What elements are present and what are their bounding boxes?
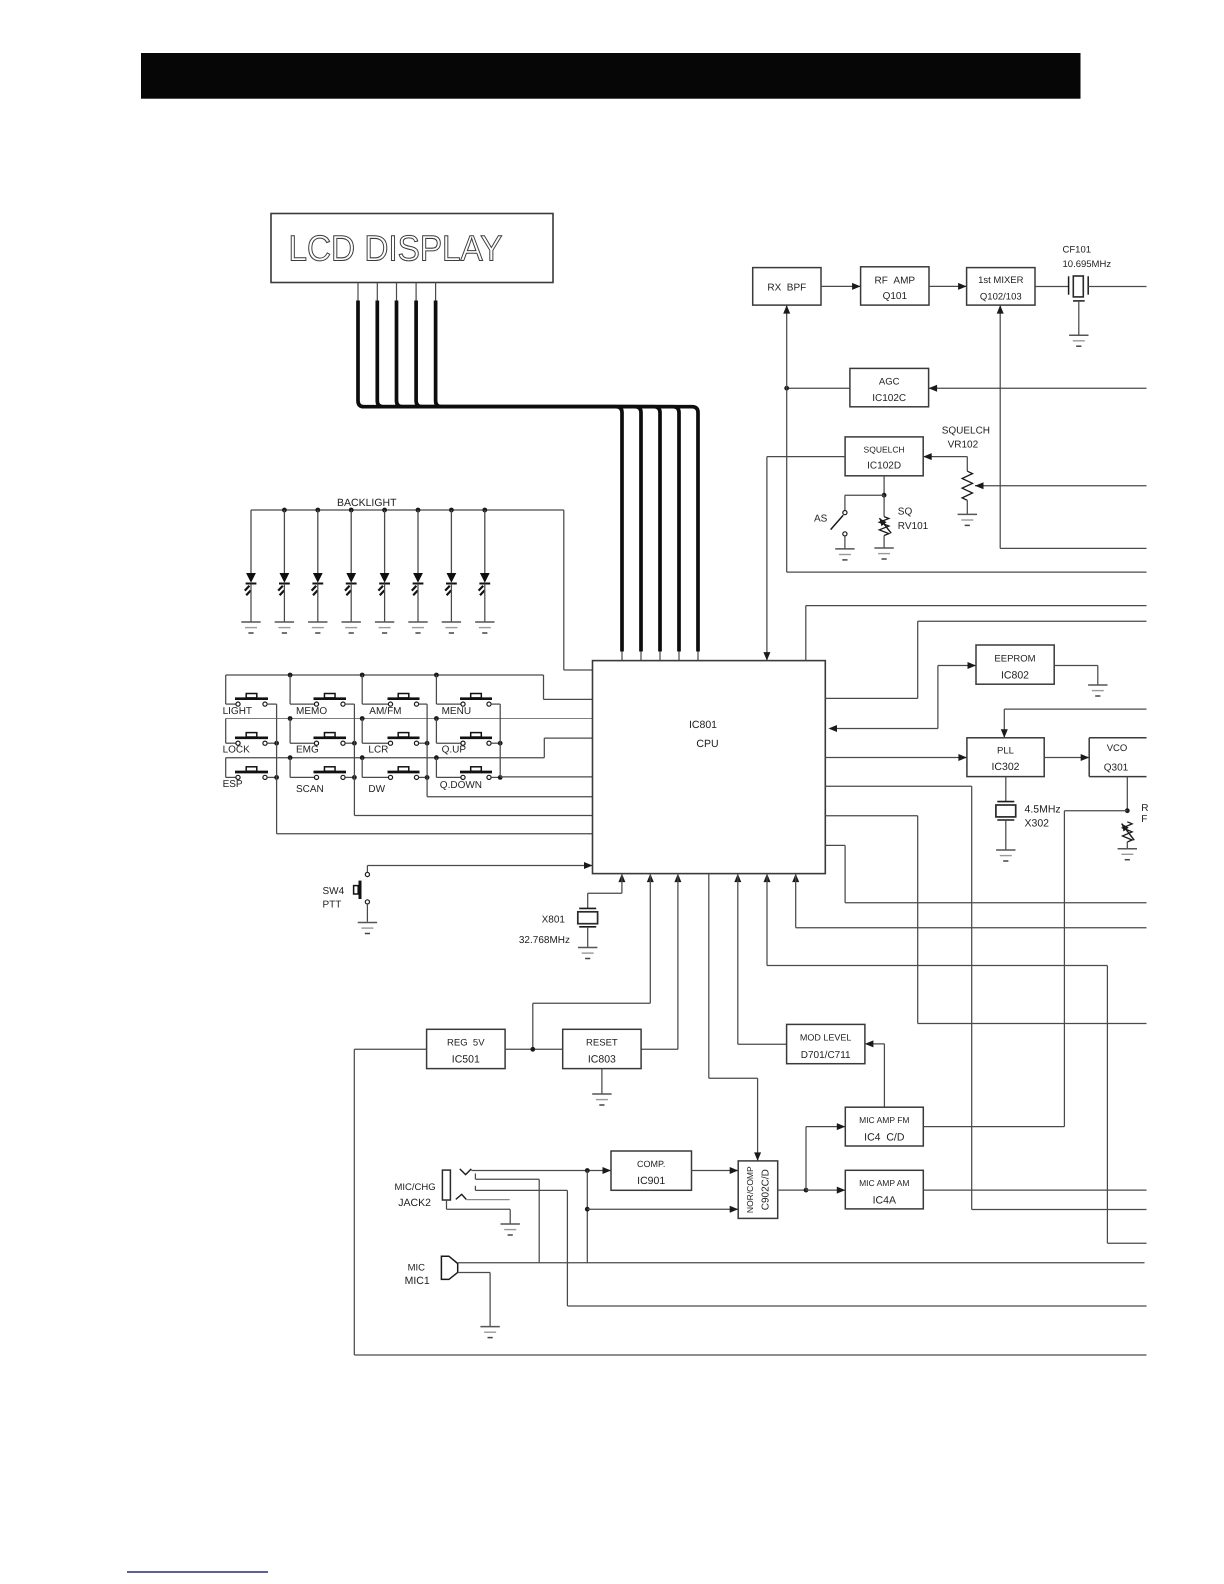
svg-text:IC901: IC901 — [637, 1175, 665, 1187]
wire CPU right pin1 to edge — [825, 621, 1146, 698]
svg-text:MEMO: MEMO — [296, 706, 327, 717]
wire REG5V input — [354, 1049, 1146, 1355]
pushbutton switch DW — [362, 758, 429, 795]
block RF AMP Q101 — [861, 267, 929, 305]
wire CPU to PLL — [825, 754, 967, 761]
wire CPU pin5 to edge — [764, 874, 1147, 1244]
backlight LED D7 — [442, 508, 461, 633]
ground CF101 — [1069, 335, 1088, 346]
ground EEPROM — [1088, 685, 1107, 696]
svg-text:IC102C: IC102C — [872, 393, 906, 404]
svg-text:DW: DW — [368, 784, 385, 795]
svg-text:MIC AMP AM: MIC AMP AM — [859, 1178, 909, 1188]
wire NOR/COMP output node — [778, 1123, 846, 1194]
wire MIC AMP AM out to edge — [923, 1189, 1146, 1191]
svg-text:JACK2: JACK2 — [398, 1197, 431, 1209]
svg-text:IC801: IC801 — [689, 719, 717, 731]
block VCO Q301 — [1089, 738, 1146, 777]
backlight LED D4 — [342, 508, 361, 633]
potentiometer RV101 SQ — [877, 495, 929, 547]
pushbutton switch MEMO — [290, 675, 354, 717]
pushbutton switch LOCK — [223, 719, 279, 756]
svg-text:MIC AMP FM: MIC AMP FM — [859, 1115, 909, 1125]
svg-text:32.768MHz: 32.768MHz — [519, 935, 570, 946]
CPU IC801 — [593, 661, 826, 874]
block MOD LEVEL D701/C711 — [787, 1024, 865, 1063]
svg-text:COMP.: COMP. — [637, 1159, 665, 1169]
svg-text:X801: X801 — [542, 915, 566, 926]
svg-text:1st MIXER: 1st MIXER — [978, 275, 1024, 286]
backlight LED D6 — [408, 508, 427, 633]
wire RX BPF to RF AMP — [821, 283, 861, 290]
pushbutton switch ESP — [223, 758, 279, 790]
svg-text:RESET: RESET — [586, 1038, 618, 1049]
svg-text:D701/C711: D701/C711 — [801, 1050, 851, 1061]
svg-text:NOR/COMP: NOR/COMP — [745, 1166, 755, 1213]
wire VCO output node — [1064, 777, 1129, 1127]
wire node to NOR/COMP input — [585, 1171, 738, 1263]
wire AGC input from edge — [929, 385, 1147, 392]
wire EEPROM data to CPU — [829, 662, 977, 732]
wire MIC1 signal to edge — [458, 1262, 1145, 1264]
svg-text:Q102/103: Q102/103 — [980, 292, 1022, 303]
svg-text:X302: X302 — [1025, 818, 1050, 830]
pushbutton switch EMG — [290, 719, 357, 756]
svg-text:IC4A: IC4A — [873, 1195, 896, 1207]
LCD data bus wires (5) — [358, 283, 698, 661]
svg-text:IC803: IC803 — [588, 1054, 616, 1066]
svg-text:IC802: IC802 — [1001, 670, 1029, 682]
wire X801 to ground — [587, 927, 589, 947]
svg-text:AM/FM: AM/FM — [369, 706, 401, 717]
filter CF101 10.695MHz — [1063, 245, 1112, 297]
svg-text:SCAN: SCAN — [296, 784, 324, 795]
svg-text:SQUELCH: SQUELCH — [864, 445, 905, 455]
wire CPU right pin4 to edge — [825, 845, 1146, 902]
wire REG5V to RESET — [505, 1047, 563, 1052]
block EEPROM IC802 — [976, 645, 1054, 684]
svg-text:EMG: EMG — [296, 745, 319, 756]
svg-text:RX BPF: RX BPF — [767, 283, 806, 294]
ground VR102 — [958, 514, 977, 525]
backlight LED D2 — [275, 508, 294, 633]
pushbutton switch AM/FM — [362, 675, 427, 717]
svg-text:F: F — [1141, 814, 1147, 825]
wire PLL top input from edge — [1001, 709, 1147, 738]
wire CF101 to ground — [1073, 301, 1085, 335]
varistor VCO tune — [1119, 803, 1148, 848]
wire CPU to MOD LEVEL — [734, 874, 786, 1045]
wire PLL to X302 — [1005, 777, 1007, 802]
svg-text:CPU: CPU — [696, 738, 718, 750]
wire RESET to CPU — [641, 874, 681, 1050]
wire SW4 to CPU — [367, 862, 592, 872]
svg-text:LCD DISPLAY: LCD DISPLAY — [289, 228, 503, 269]
svg-text:LCR: LCR — [368, 745, 388, 756]
svg-text:BACKLIGHT: BACKLIGHT — [337, 497, 397, 509]
wire EEPROM to ground — [1054, 666, 1098, 685]
backlight LED D3 — [308, 508, 327, 633]
block COMP IC901 — [611, 1151, 692, 1190]
block SQUELCH IC102D — [845, 437, 923, 476]
svg-text:4.5MHz: 4.5MHz — [1025, 804, 1061, 816]
wire CPU to X801 — [588, 874, 626, 909]
svg-text:RV101: RV101 — [898, 521, 929, 532]
svg-text:Q.DOWN: Q.DOWN — [440, 780, 482, 791]
wire SQUELCH to CPU — [763, 457, 845, 661]
block MIC AMP FM IC4 C/D — [845, 1107, 923, 1146]
keypad row bus 1 wire — [226, 673, 593, 700]
backlight LED D5 — [375, 508, 394, 633]
svg-text:VR102: VR102 — [948, 440, 979, 451]
wire JACK2 ring2 — [475, 1186, 1146, 1306]
svg-text:Q101: Q101 — [883, 291, 908, 302]
ground AS — [835, 549, 854, 560]
keypad column 3 wire — [427, 704, 592, 797]
keypad column 4 wire — [500, 704, 592, 777]
svg-text:R: R — [1141, 803, 1148, 814]
block REG 5V IC501 — [427, 1029, 506, 1068]
block AGC IC102C — [850, 368, 929, 406]
svg-text:10.695MHz: 10.695MHz — [1063, 259, 1112, 270]
crystal X302 4.5MHz — [996, 802, 1061, 830]
svg-text:MENU: MENU — [442, 706, 471, 717]
svg-text:RF AMP: RF AMP — [875, 276, 916, 287]
wire RESET to ground — [601, 1069, 603, 1094]
backlight LED D8 — [475, 508, 494, 633]
footer link rule — [127, 1571, 268, 1573]
wire MIC1 to ground — [458, 1273, 490, 1327]
svg-text:LIGHT: LIGHT — [223, 706, 252, 717]
wire SW4 to ground — [366, 904, 368, 922]
crystal X801 — [519, 908, 598, 946]
wire CPU pin6 to edge — [792, 874, 1146, 928]
block PLL IC302 — [967, 738, 1044, 777]
wire PLL to VCO — [1044, 754, 1089, 761]
pushbutton switch LIGHT — [223, 675, 277, 717]
keypad column 2 wire — [354, 704, 592, 815]
svg-text:EEPROM: EEPROM — [994, 654, 1035, 665]
wire CPU pin to REG5V node — [533, 874, 654, 1050]
svg-text:MOD LEVEL: MOD LEVEL — [800, 1033, 852, 1043]
keypad row bus 3 wire — [226, 738, 593, 760]
svg-text:IC302: IC302 — [991, 761, 1019, 773]
block MIC AMP AM IC4A — [845, 1170, 923, 1209]
block RESET IC803 — [563, 1029, 641, 1068]
ground X302 — [996, 850, 1015, 861]
wire JACK2 sleeve to ground — [447, 1200, 511, 1224]
pushbutton switch Q.DOWN — [436, 758, 502, 791]
svg-text:ESP: ESP — [223, 779, 243, 790]
ground X801 — [578, 948, 597, 959]
LCD display block U-LCD — [271, 214, 553, 283]
wire AGC to RX BPF — [783, 305, 850, 572]
wire JACK2 ring1 — [475, 1174, 539, 1263]
pushbutton switch SCAN — [290, 758, 357, 795]
ground RESET — [592, 1094, 611, 1105]
svg-text:Q.UP: Q.UP — [442, 745, 467, 756]
pushbutton switch LCR — [362, 719, 429, 756]
ground VCO varistor — [1118, 849, 1137, 860]
microphone MIC1 — [405, 1256, 458, 1287]
ground MIC1 — [480, 1327, 499, 1338]
wire CPU top pin to edge — [806, 606, 1147, 661]
svg-text:MIC: MIC — [408, 1263, 426, 1274]
pushbutton switch MENU — [436, 675, 500, 717]
svg-text:MIC/CHG: MIC/CHG — [395, 1182, 436, 1193]
backlight LED D1 — [241, 510, 260, 633]
wire 1st MIXER IF out — [997, 305, 1147, 548]
wire CPU to NOR/COMP — [709, 874, 761, 1161]
svg-text:REG 5V: REG 5V — [447, 1038, 485, 1049]
svg-text:MIC1: MIC1 — [405, 1275, 430, 1287]
svg-text:IC501: IC501 — [452, 1054, 480, 1066]
wire RX BPF branch to edge — [787, 571, 1147, 573]
potentiometer VR102 SQUELCH — [923, 426, 1146, 515]
svg-text:PTT: PTT — [323, 900, 342, 911]
keypad column 1 wire — [277, 704, 593, 834]
backlight bus wire — [251, 510, 593, 670]
pushbutton switch SW4 PTT — [323, 872, 370, 910]
svg-text:Q301: Q301 — [1104, 763, 1129, 774]
block RX BPF — [753, 268, 821, 306]
title header bar — [141, 53, 1081, 99]
ground RV101 — [874, 548, 893, 559]
wire X302 to ground — [1005, 820, 1007, 850]
wire MIC AMP FM to MOD LEVEL — [865, 1040, 885, 1107]
svg-text:LOCK: LOCK — [223, 745, 251, 756]
block 1st MIXER Q102/103 — [967, 268, 1035, 306]
wire JACK2 tip to COMP — [471, 1167, 611, 1174]
pushbutton switch Q.UP — [436, 719, 502, 756]
svg-text:CF101: CF101 — [1063, 245, 1092, 256]
svg-text:IC102D: IC102D — [867, 461, 901, 472]
keypad row bus 2 wire — [226, 716, 593, 721]
wire MIC AMP FM out — [923, 1126, 1064, 1128]
svg-text:SW4: SW4 — [323, 886, 345, 897]
wire RF AMP to 1st MIXER — [929, 283, 967, 290]
wire SQUELCH bottom node — [882, 476, 887, 498]
wire COMP to NOR/COMP — [692, 1167, 739, 1174]
wire JACK2 contact stub — [466, 1199, 510, 1201]
wire CPU right pin3 to edge — [825, 816, 1146, 1024]
ground JACK2 — [501, 1224, 520, 1235]
block NOR/COMP C902C/D — [738, 1161, 778, 1219]
svg-text:AGC: AGC — [879, 377, 900, 388]
svg-text:IC4 C/D: IC4 C/D — [864, 1132, 905, 1144]
connector JACK2 MIC/CHG — [395, 1169, 472, 1209]
switch AS — [814, 495, 884, 548]
ground SW4 — [358, 923, 377, 934]
BACKLIGHT label — [337, 497, 397, 509]
svg-text:SQ: SQ — [898, 507, 913, 518]
svg-text:SQUELCH: SQUELCH — [942, 426, 990, 437]
svg-text:PLL: PLL — [997, 746, 1014, 757]
svg-text:VCO: VCO — [1107, 743, 1128, 754]
wire 1st MIXER to CF101 — [1035, 286, 1069, 288]
svg-text:C902C/D: C902C/D — [761, 1169, 772, 1210]
svg-text:AS: AS — [814, 514, 828, 525]
wire CPU right pin2 to edge — [825, 786, 1146, 1209]
wire CF101 output to edge — [1088, 286, 1146, 288]
